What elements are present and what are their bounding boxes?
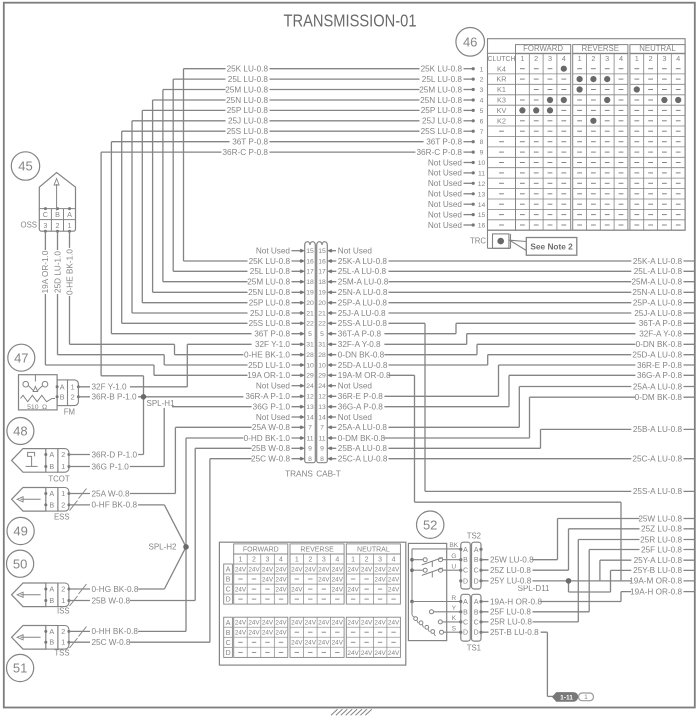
wire 19A OR-1.0	[45, 231, 300, 375]
range switch box (52)	[408, 543, 460, 640]
wire 19A-M OR-0.8 feed	[332, 375, 621, 581]
svg-text:Not Used: Not Used	[428, 200, 463, 209]
svg-text:A: A	[49, 450, 54, 459]
svg-text:FORWARD: FORWARD	[523, 44, 563, 53]
svg-text:7: 7	[320, 425, 324, 432]
svg-text:25B-A LU-0.8: 25B-A LU-0.8	[338, 444, 388, 453]
svg-text:11: 11	[306, 435, 313, 442]
svg-text:C: C	[226, 640, 231, 647]
svg-text:Not Used: Not Used	[428, 169, 463, 178]
svg-text:25L LU-0.8: 25L LU-0.8	[250, 267, 291, 276]
svg-text:7: 7	[308, 425, 312, 432]
switch wire labels	[449, 542, 458, 632]
wire 25A-A LU-0.8	[332, 387, 695, 428]
svg-text:24V: 24V	[248, 566, 260, 573]
svg-text:REVERSE: REVERSE	[582, 44, 619, 53]
svg-text:25J LU-0.8: 25J LU-0.8	[250, 309, 290, 318]
svg-text:52: 52	[423, 517, 437, 532]
svg-text:510: 510	[27, 404, 39, 411]
svg-text:3: 3	[266, 557, 270, 564]
wire 25M-A LU-0.8	[332, 281, 695, 283]
svg-text:3: 3	[548, 54, 552, 63]
ref circle 48	[7, 418, 34, 445]
svg-text:24V: 24V	[374, 620, 386, 627]
table 46 Not Used labels	[428, 157, 464, 229]
svg-text:25S LU-0.8: 25S LU-0.8	[227, 127, 269, 136]
svg-text:24V: 24V	[235, 587, 247, 594]
svg-text:25S-A LU-0.8: 25S-A LU-0.8	[633, 487, 683, 496]
svg-text:20: 20	[318, 300, 326, 307]
svg-text:25N-A LU-0.8: 25N-A LU-0.8	[632, 288, 682, 297]
svg-text:25F LU-0.8: 25F LU-0.8	[490, 608, 531, 617]
svg-text:A: A	[226, 620, 231, 627]
svg-text:10: 10	[318, 362, 326, 369]
svg-text:25Y-A LU-0.8: 25Y-A LU-0.8	[634, 556, 683, 565]
svg-text:36R-A P-1.0: 36R-A P-1.0	[245, 392, 290, 401]
svg-text:4: 4	[676, 54, 680, 63]
svg-text:ESS: ESS	[54, 513, 70, 522]
svg-text:24V: 24V	[305, 566, 317, 573]
svg-text:K1: K1	[497, 85, 506, 94]
svg-text:19A-M OR-0.8: 19A-M OR-0.8	[629, 577, 682, 586]
TSS wire labels	[90, 626, 138, 647]
svg-text:25K LU-0.8: 25K LU-0.8	[421, 65, 463, 74]
svg-text:36G P-1.0: 36G P-1.0	[92, 462, 130, 471]
svg-text:15: 15	[478, 212, 486, 219]
svg-text:25N LU-0.8: 25N LU-0.8	[420, 96, 462, 105]
svg-text:25J LU-0.8: 25J LU-0.8	[228, 117, 268, 126]
svg-text:D: D	[226, 597, 231, 604]
wire 0-HG BK-0.8	[69, 547, 186, 589]
ref circle 47	[8, 344, 35, 371]
svg-text:25P LU-0.8: 25P LU-0.8	[227, 106, 269, 115]
svg-text:24V: 24V	[374, 576, 386, 583]
wire 0-DM BK-0.8	[332, 397, 695, 438]
svg-text:18: 18	[318, 279, 326, 286]
splice SPL-D11	[518, 578, 572, 593]
wire 19A-H OR-0.8	[481, 592, 695, 602]
svg-text:24V: 24V	[347, 587, 359, 594]
svg-text:FORWARD: FORWARD	[243, 547, 279, 554]
svg-text:3: 3	[480, 87, 484, 94]
svg-text:24V: 24V	[347, 566, 359, 573]
svg-text:5: 5	[480, 108, 484, 115]
svg-text:19A-M OR-0.8: 19A-M OR-0.8	[338, 371, 391, 380]
svg-text:BK: BK	[449, 542, 458, 549]
ESS engine speed sensor	[12, 488, 71, 522]
svg-text:24V: 24V	[248, 630, 260, 637]
wire 32F Y-1.0	[78, 344, 300, 387]
svg-text:24V: 24V	[291, 620, 303, 627]
svg-text:10: 10	[478, 160, 486, 167]
wire 36T P-0.8 top run	[111, 142, 463, 334]
svg-text:24V: 24V	[262, 566, 274, 573]
wire 36G-A P-0.8	[332, 375, 695, 406]
wire 25L-A LU-0.8	[332, 270, 695, 272]
svg-text:3: 3	[322, 557, 326, 564]
svg-text:25R LU-0.8: 25R LU-0.8	[640, 535, 682, 544]
svg-text:24V: 24V	[388, 650, 400, 657]
svg-text:14: 14	[318, 414, 326, 421]
svg-text:R: R	[451, 595, 456, 602]
svg-text:24V: 24V	[262, 576, 274, 583]
svg-text:25A-A LU-0.8: 25A-A LU-0.8	[338, 423, 388, 432]
svg-text:25D LU-1.0: 25D LU-1.0	[248, 361, 290, 370]
wire 25K LU-0.8 top run	[184, 69, 464, 261]
svg-text:1: 1	[351, 557, 355, 564]
svg-text:9: 9	[308, 446, 312, 453]
svg-text:2: 2	[252, 557, 256, 564]
svg-text:36G-A P-0.8: 36G-A P-0.8	[637, 371, 683, 380]
svg-text:14: 14	[478, 202, 486, 209]
svg-text:24V: 24V	[318, 620, 330, 627]
svg-text:6: 6	[480, 118, 484, 125]
ref circle 46	[456, 28, 485, 57]
svg-text:12: 12	[306, 394, 314, 401]
svg-text:B: B	[226, 630, 231, 637]
svg-text:24: 24	[306, 383, 314, 390]
wire 25R LU-0.8	[481, 540, 695, 622]
TCOT wire labels	[90, 449, 138, 471]
svg-text:49: 49	[13, 524, 27, 539]
svg-text:25P-A LU-0.8: 25P-A LU-0.8	[633, 299, 683, 308]
svg-text:11: 11	[318, 435, 325, 442]
svg-text:TCOT: TCOT	[48, 475, 69, 484]
svg-text:24V: 24V	[361, 620, 373, 627]
ESS wire labels	[90, 488, 138, 509]
svg-text:3: 3	[662, 54, 666, 63]
svg-text:24V: 24V	[262, 630, 274, 637]
svg-text:25M LU-0.8: 25M LU-0.8	[419, 85, 462, 94]
svg-text:24V: 24V	[388, 587, 400, 594]
ISS wire slashes	[70, 584, 87, 606]
ref circle 45	[11, 152, 39, 180]
svg-text:25D LU-1.0: 25D LU-1.0	[53, 251, 62, 293]
svg-text:Y: Y	[452, 605, 457, 612]
svg-text:14: 14	[306, 414, 314, 421]
svg-text:24V: 24V	[291, 587, 303, 594]
svg-text:25K-A LU-0.8: 25K-A LU-0.8	[338, 257, 388, 266]
wire 25Y LU-0.8 / 19A-M OR-0.8	[481, 580, 695, 582]
connector right wire labels	[332, 246, 391, 464]
svg-text:2: 2	[71, 393, 75, 402]
svg-text:1: 1	[68, 221, 72, 230]
svg-text:25N LU-0.8: 25N LU-0.8	[248, 288, 290, 297]
wire 36R-B P-1.0 / 36R-A P-1.0	[78, 396, 300, 398]
svg-text:25L LU-0.8: 25L LU-0.8	[422, 75, 463, 84]
svg-text:FM: FM	[64, 408, 75, 417]
svg-text:25J LU-0.8: 25J LU-0.8	[422, 117, 462, 126]
svg-text:24V: 24V	[332, 587, 344, 594]
svg-text:0-DN BK-0.8: 0-DN BK-0.8	[636, 340, 683, 349]
svg-text:24V: 24V	[318, 576, 330, 583]
TCOT temperature sensor (48)	[12, 449, 71, 484]
svg-text:24V: 24V	[305, 620, 317, 627]
svg-text:24V: 24V	[332, 620, 344, 627]
wire 25Z LU-0.8	[481, 529, 695, 570]
svg-text:25T-B LU-0.8: 25T-B LU-0.8	[490, 628, 539, 637]
svg-text:TRANSMISSION-01: TRANSMISSION-01	[284, 10, 417, 30]
svg-text:B: B	[226, 577, 231, 584]
svg-text:24V: 24V	[291, 566, 303, 573]
svg-text:2: 2	[534, 54, 538, 63]
wire 25K-A LU-0.8	[332, 260, 695, 262]
svg-text:25B W-0.8: 25B W-0.8	[92, 596, 131, 605]
svg-text:25C-A LU-0.8: 25C-A LU-0.8	[338, 455, 388, 464]
wire 25T-B LU-0.8	[481, 632, 555, 696]
svg-text:Not Used: Not Used	[428, 221, 463, 230]
svg-text:25M LU-0.8: 25M LU-0.8	[247, 278, 290, 287]
wire 0-HD BK-1.0 vertical	[186, 438, 300, 631]
svg-text:2: 2	[308, 557, 312, 564]
svg-text:25A-A LU-0.8: 25A-A LU-0.8	[633, 382, 683, 391]
svg-text:25N-A LU-0.8: 25N-A LU-0.8	[338, 288, 388, 297]
svg-text:2: 2	[649, 54, 653, 63]
svg-text:B: B	[474, 557, 479, 564]
svg-text:25S-A LU-0.8: 25S-A LU-0.8	[338, 319, 388, 328]
svg-text:1: 1	[635, 54, 639, 63]
svg-text:D: D	[474, 630, 479, 637]
clutch chart table 46 grid	[488, 39, 686, 231]
svg-text:G: G	[451, 553, 456, 560]
svg-text:46: 46	[463, 34, 477, 49]
svg-text:0-HD BK-1.0: 0-HD BK-1.0	[244, 434, 291, 443]
svg-text:A: A	[463, 547, 468, 554]
svg-text:K2: K2	[497, 116, 506, 125]
connector TRANS CAB-T housing	[300, 242, 333, 463]
svg-text:SPL-H2: SPL-H2	[148, 543, 177, 552]
ref circle 51	[7, 654, 34, 681]
svg-text:32F Y-1.0: 32F Y-1.0	[255, 340, 290, 349]
svg-text:25D-A LU-0.8: 25D-A LU-0.8	[632, 351, 682, 360]
svg-text:24V: 24V	[235, 620, 247, 627]
svg-text:24V: 24V	[262, 620, 274, 627]
wire 25W LU-0.8	[481, 519, 695, 560]
ref circle 49	[7, 517, 34, 544]
svg-text:25M-A LU-0.8: 25M-A LU-0.8	[338, 278, 389, 287]
wire 25S LU-0.8 top run	[122, 131, 464, 323]
svg-text:36T-A P-0.8: 36T-A P-0.8	[338, 330, 382, 339]
svg-text:D: D	[226, 650, 231, 657]
wire 25B W-0.8	[69, 448, 300, 600]
svg-text:25K LU-0.8: 25K LU-0.8	[227, 65, 269, 74]
svg-text:Not Used: Not Used	[256, 382, 291, 391]
svg-text:1: 1	[239, 557, 243, 564]
svg-text:C: C	[463, 568, 468, 575]
svg-text:17: 17	[318, 269, 326, 276]
svg-text:7: 7	[480, 129, 484, 136]
svg-text:19: 19	[306, 290, 314, 297]
svg-text:3: 3	[43, 221, 47, 230]
svg-text:22: 22	[318, 321, 326, 328]
svg-text:36T P-0.8: 36T P-0.8	[254, 330, 290, 339]
wire 25L LU-0.8 top run	[173, 79, 463, 271]
wire 25P-A LU-0.8	[332, 302, 695, 304]
svg-text:11: 11	[478, 171, 485, 178]
svg-text:25L-A LU-0.8: 25L-A LU-0.8	[634, 267, 683, 276]
svg-text:31: 31	[306, 342, 314, 349]
svg-text:21: 21	[318, 310, 326, 317]
svg-text:24V: 24V	[361, 650, 373, 657]
ISS input speed sensor	[12, 583, 71, 616]
svg-text:25C-A LU-0.8: 25C-A LU-0.8	[632, 455, 682, 464]
svg-text:TSS: TSS	[54, 649, 69, 658]
svg-text:C: C	[474, 619, 479, 626]
svg-text:0-DN BK-0.8: 0-DN BK-0.8	[338, 351, 385, 360]
svg-text:C: C	[226, 587, 231, 594]
svg-text:4: 4	[335, 557, 339, 564]
svg-text:24V: 24V	[388, 620, 400, 627]
svg-text:13: 13	[318, 404, 326, 411]
svg-text:25S LU-0.8: 25S LU-0.8	[249, 319, 291, 328]
svg-text:NEUTRAL: NEUTRAL	[357, 547, 390, 554]
top wire labels	[221, 64, 463, 157]
table 46 pin stubs 1-16	[464, 66, 486, 229]
OSS speed sensor (45)	[21, 173, 76, 233]
svg-text:25L-A LU-0.8: 25L-A LU-0.8	[338, 267, 387, 276]
svg-text:A: A	[49, 627, 54, 636]
svg-text:1: 1	[61, 596, 65, 605]
svg-text:A: A	[60, 383, 65, 392]
svg-text:36T-A P-0.8: 36T-A P-0.8	[639, 319, 683, 328]
OSS wire labels	[40, 248, 74, 296]
svg-text:0-HF BK-0.8: 0-HF BK-0.8	[92, 501, 138, 510]
svg-text:Not Used: Not Used	[256, 413, 291, 422]
svg-text:B: B	[49, 638, 54, 647]
svg-text:24V: 24V	[388, 566, 400, 573]
svg-text:25K LU-0.8: 25K LU-0.8	[249, 257, 291, 266]
svg-text:24: 24	[318, 383, 326, 390]
svg-text:KR: KR	[496, 75, 506, 84]
svg-text:C: C	[474, 568, 479, 575]
svg-text:51: 51	[13, 661, 27, 676]
svg-text:2: 2	[61, 450, 65, 459]
svg-text:25C W-0.8: 25C W-0.8	[251, 455, 290, 464]
svg-text:TRANS: TRANS	[285, 470, 313, 479]
svg-text:25Y LU-0.8: 25Y LU-0.8	[490, 577, 532, 586]
svg-text:8: 8	[480, 139, 484, 146]
svg-text:2: 2	[61, 585, 65, 594]
svg-text:25N LU-0.8: 25N LU-0.8	[226, 96, 268, 105]
svg-text:19A OR-1.0: 19A OR-1.0	[247, 371, 290, 380]
svg-text:17: 17	[306, 269, 314, 276]
svg-text:25D-A LU-0.8: 25D-A LU-0.8	[338, 361, 388, 370]
wire 0-HH BK-0.8	[69, 630, 186, 632]
svg-text:Ω: Ω	[42, 404, 47, 411]
connector TS1	[459, 594, 482, 652]
svg-text:1: 1	[480, 66, 484, 73]
svg-text:9: 9	[320, 446, 324, 453]
svg-text:24V: 24V	[291, 640, 303, 647]
TRC row with dot	[470, 230, 511, 248]
svg-text:4: 4	[279, 557, 283, 564]
ref circle 50	[7, 550, 34, 577]
wire 25D LU-1.0	[58, 231, 301, 365]
svg-text:24V: 24V	[275, 587, 287, 594]
svg-text:13: 13	[478, 191, 486, 198]
svg-text:25S LU-0.8: 25S LU-0.8	[421, 127, 463, 136]
wire 36R-D P-1.0 horizontal	[69, 454, 144, 456]
svg-text:D: D	[474, 578, 479, 585]
svg-text:0-DM BK-0.8: 0-DM BK-0.8	[635, 393, 683, 402]
svg-text:16: 16	[318, 258, 326, 265]
svg-text:25Y-B LU-0.8: 25Y-B LU-0.8	[633, 566, 682, 575]
svg-text:25P LU-0.8: 25P LU-0.8	[249, 299, 291, 308]
svg-text:25L LU-0.8: 25L LU-0.8	[228, 75, 269, 84]
svg-text:Not Used: Not Used	[428, 179, 463, 188]
svg-text:31: 31	[318, 342, 326, 349]
svg-text:22: 22	[306, 321, 314, 328]
svg-text:32F-A Y-0.8: 32F-A Y-0.8	[639, 330, 682, 339]
svg-text:36R-C P-0.8: 36R-C P-0.8	[222, 148, 268, 157]
svg-text:Not Used: Not Used	[338, 382, 373, 391]
svg-text:24V: 24V	[388, 576, 400, 583]
svg-text:S: S	[452, 626, 457, 633]
wire 25N-A LU-0.8	[332, 291, 695, 293]
splice SPL-H2	[148, 542, 188, 552]
svg-text:19A-H OR-0.8: 19A-H OR-0.8	[490, 597, 542, 606]
svg-text:18: 18	[306, 279, 314, 286]
svg-text:A: A	[49, 489, 54, 498]
svg-text:24V: 24V	[332, 566, 344, 573]
wire 36T-A P-0.8	[332, 323, 695, 333]
svg-text:1-11: 1-11	[560, 694, 573, 701]
svg-text:2: 2	[365, 557, 369, 564]
svg-text:12: 12	[318, 394, 326, 401]
svg-text:25W LU-0.8: 25W LU-0.8	[638, 514, 682, 523]
svg-text:25Z LU-0.8: 25Z LU-0.8	[641, 525, 682, 534]
svg-text:36T P-0.8: 36T P-0.8	[232, 137, 268, 146]
svg-text:REVERSE: REVERSE	[300, 547, 334, 554]
svg-text:5: 5	[308, 331, 312, 338]
wire 0-HE BK-1.0	[70, 231, 301, 355]
svg-text:NEUTRAL: NEUTRAL	[639, 44, 676, 53]
ISS wire labels	[90, 584, 139, 605]
svg-text:1: 1	[584, 694, 588, 701]
svg-text:25C W-0.8: 25C W-0.8	[92, 638, 131, 647]
svg-text:Not Used: Not Used	[338, 413, 373, 422]
svg-text:24V: 24V	[332, 576, 344, 583]
svg-text:25P-A LU-0.8: 25P-A LU-0.8	[338, 299, 388, 308]
svg-text:20: 20	[306, 300, 314, 307]
svg-text:10: 10	[306, 362, 314, 369]
svg-text:B: B	[49, 596, 54, 605]
svg-text:B: B	[49, 462, 54, 471]
wire 25C-A LU-0.8	[332, 458, 695, 460]
svg-text:45: 45	[18, 159, 32, 174]
right border wire labels	[629, 256, 683, 597]
wire 25B-A LU-0.8	[332, 429, 695, 448]
svg-text:D: D	[463, 578, 468, 585]
TS connector wire labels	[489, 555, 543, 637]
TSS wire slashes	[70, 627, 87, 649]
svg-text:32F-A Y-0.8: 32F-A Y-0.8	[338, 340, 381, 349]
svg-text:24V: 24V	[374, 650, 386, 657]
svg-text:1: 1	[520, 54, 524, 63]
svg-text:36G P-1.0: 36G P-1.0	[253, 403, 291, 412]
svg-text:TRC: TRC	[470, 237, 486, 246]
wire 25P LU-0.8 top run	[142, 110, 463, 302]
svg-text:B: B	[55, 210, 60, 219]
svg-text:24V: 24V	[347, 620, 359, 627]
svg-text:1: 1	[295, 557, 299, 564]
svg-text:1: 1	[71, 383, 75, 392]
TSS turbine speed sensor	[12, 626, 71, 658]
svg-text:2: 2	[591, 54, 595, 63]
svg-text:25Z LU-0.8: 25Z LU-0.8	[490, 566, 531, 575]
svg-text:A: A	[474, 599, 479, 606]
svg-text:28: 28	[306, 352, 314, 359]
